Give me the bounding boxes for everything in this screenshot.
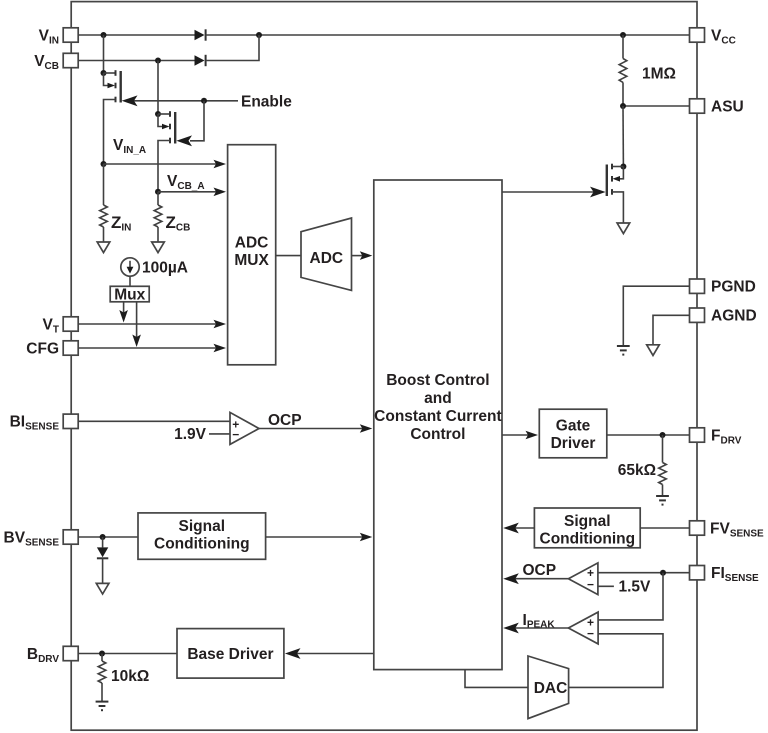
ground ZIN (open triangle) (97, 242, 110, 253)
svg-text:−: − (232, 427, 239, 441)
svg-text:Signal: Signal (179, 518, 226, 535)
diode D2 (195, 55, 206, 66)
svg-text:AGND: AGND (711, 308, 757, 325)
comparator IPEAK (568, 612, 598, 644)
resistor ZCB (154, 192, 190, 242)
wire VT to ADC MUX (78, 323, 218, 325)
wire Signal Conditioning FV to Boost Control (511, 527, 534, 529)
svg-text:Mux: Mux (114, 286, 145, 303)
pin PGND (690, 279, 756, 296)
block Signal Conditioning (FV) (534, 508, 640, 548)
node BVSENSE junction (100, 534, 106, 540)
ground BV diode (open triangle) (96, 583, 109, 594)
svg-text:Constant Current: Constant Current (374, 408, 501, 425)
pin AGND (690, 308, 757, 325)
resistor ZIN (100, 164, 132, 242)
wire PGND to ground (623, 286, 689, 346)
comparator OCP (flyback) (568, 563, 598, 595)
wire D1 cathode to VCC pin (206, 34, 690, 36)
wire 1.9V to comparator (209, 433, 231, 435)
wire Mux to CFG line (132, 302, 141, 347)
pin FDRV (690, 427, 742, 446)
pin VT (43, 316, 79, 335)
pin FVSENSE (690, 520, 765, 539)
wire BDRV to Base Driver (78, 653, 177, 655)
wire VIN down to M1 drain (103, 35, 105, 73)
svg-text:100µA: 100µA (142, 260, 188, 277)
node VIN-M1 junction (101, 32, 107, 38)
wire Boost Control to M3 gate (502, 191, 594, 193)
svg-text:PGND: PGND (711, 279, 756, 296)
wire 1.5V to comparator (598, 585, 614, 587)
svg-text:1.5V: 1.5V (619, 579, 652, 596)
wire FVSENSE to Signal Conditioning (640, 527, 689, 529)
svg-text:1.9V: 1.9V (174, 426, 207, 443)
pin BDRV (27, 646, 78, 665)
svg-text:Enable: Enable (241, 94, 292, 111)
wire Enable into M1 gate (130, 100, 238, 102)
block DAC (trapezoid) (528, 656, 569, 719)
block Signal Conditioning (BV) (138, 513, 266, 559)
block Gate Driver (539, 409, 607, 458)
svg-text:MUX: MUX (234, 252, 269, 269)
block ADC MUX (228, 145, 276, 365)
node FDRV junction (660, 432, 666, 438)
svg-text:OCP: OCP (268, 412, 302, 429)
wire ADC MUX to ADC (276, 255, 301, 257)
pin ASU (690, 98, 744, 115)
wire VCB_A to ADC MUX (158, 191, 218, 193)
svg-text:−: − (587, 578, 594, 592)
pin CFG (26, 340, 78, 357)
wire Boost Control to Base Driver (290, 653, 374, 655)
ground M3 source (open triangle) (617, 223, 630, 234)
wire DAC output to IPEAK comparator (569, 634, 663, 688)
node BDRV junction (99, 651, 105, 657)
svg-text:Base Driver: Base Driver (187, 646, 273, 663)
ground AGND (open triangle) (647, 345, 660, 356)
pin BISENSE (10, 414, 79, 433)
svg-text:OCP: OCP (523, 562, 557, 579)
block Mux (110, 286, 149, 303)
diode D1 (195, 29, 206, 40)
node diode-join junction (256, 32, 262, 38)
node VIN_A junction (101, 161, 107, 167)
block Base Driver (177, 629, 284, 679)
wire VIN to diode D1 (78, 34, 194, 36)
wire OCP comparator to Boost Control (511, 578, 568, 580)
wire Mux to VT line (119, 302, 128, 323)
node VCB-M2 junction (155, 58, 161, 64)
wire ADC to Boost Control (352, 255, 365, 257)
wire CFG to ADC MUX (78, 347, 218, 349)
ground 10k (bar style) (96, 702, 109, 711)
wire FISENSE branch to IPEAK comparator (598, 573, 663, 620)
resistor 65kohm (618, 435, 667, 496)
ground ZCB (open triangle) (152, 242, 165, 253)
pin VIN (39, 27, 79, 46)
wire AGND to ground (653, 315, 690, 345)
wire BISENSE to comparator (78, 420, 231, 422)
wire ASU down to M3 drain (622, 106, 624, 167)
svg-text:Conditioning: Conditioning (154, 536, 250, 553)
svg-text:Conditioning: Conditioning (540, 531, 636, 548)
wire IPEAK comparator to Boost Control (511, 627, 568, 629)
node Enable-M2 junction (201, 98, 207, 104)
pin VCC (690, 27, 736, 46)
svg-text:1MΩ: 1MΩ (642, 66, 676, 83)
ground PGND (bar style) (617, 346, 630, 355)
transistor M1 (101, 70, 121, 164)
wire VCB to diode D2 (78, 60, 194, 62)
svg-text:ASU: ASU (711, 98, 744, 115)
wire D2 cathode up to VIN rail (206, 35, 259, 61)
transistor M2 (155, 111, 175, 192)
wire VIN_A to ADC MUX (104, 163, 219, 165)
wire FISENSE to OCP comparator (598, 572, 690, 574)
svg-text:65kΩ: 65kΩ (618, 462, 656, 479)
svg-text:Gate: Gate (556, 417, 591, 434)
wire Gate Driver to FDRV (607, 434, 690, 436)
current source 100uA (121, 258, 188, 277)
node VCC-1M junction (620, 32, 626, 38)
svg-text:ADC: ADC (310, 250, 344, 267)
node ASU junction (620, 103, 626, 109)
wire Enable branch to M2 gate (190, 101, 204, 141)
resistor 1Mohm (619, 35, 676, 106)
diode BVSENSE clamp (97, 537, 108, 583)
block Boost Control (374, 180, 502, 670)
wire ASU (623, 105, 690, 107)
wire Boost Control to DAC (465, 670, 528, 688)
wire Signal Conditioning to Boost Control (266, 536, 364, 538)
wire Boost Control to Gate Driver (502, 434, 530, 436)
pin FISENSE (690, 565, 760, 584)
svg-text:−: − (587, 626, 594, 640)
node FISENSE junction (660, 570, 666, 576)
svg-text:Boost Control: Boost Control (386, 372, 489, 389)
svg-text:Control: Control (410, 426, 465, 443)
svg-text:ADC: ADC (235, 235, 269, 252)
pin BVSENSE (4, 529, 79, 548)
svg-text:10kΩ: 10kΩ (111, 668, 149, 685)
svg-text:DAC: DAC (534, 680, 568, 697)
svg-text:and: and (424, 390, 452, 407)
wire BVSENSE to Signal Conditioning (78, 536, 138, 538)
transistor M3 (607, 164, 627, 224)
comparator OCP (boost) (230, 412, 259, 444)
svg-text:Signal: Signal (564, 513, 611, 530)
svg-text:Driver: Driver (551, 435, 596, 452)
wire OCP comparator to Boost Control (259, 428, 364, 430)
svg-text:CFG: CFG (26, 340, 59, 357)
wire VCB down to M2 drain (157, 61, 159, 115)
node VCB_A junction (155, 189, 161, 195)
wire current source to Mux (129, 276, 131, 286)
block ADC (trapezoid) (301, 218, 352, 290)
ground 65k (bar style) (656, 496, 669, 505)
resistor 10kohm (98, 654, 149, 702)
pin VCB (34, 53, 78, 72)
